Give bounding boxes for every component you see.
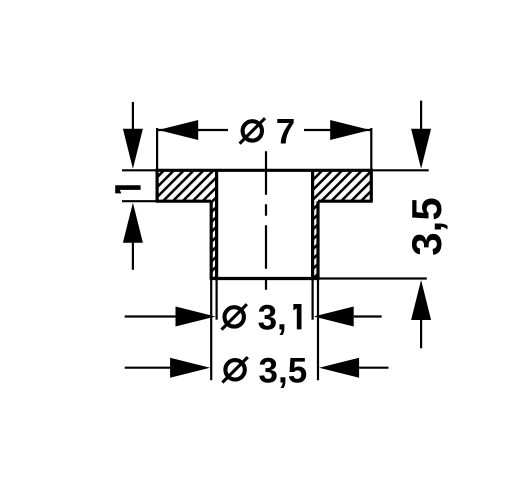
hatch right flange section bbox=[313, 170, 372, 278]
dimension line dia35 left bbox=[125, 367, 172, 369]
flange top outline bbox=[157, 170, 371, 201]
tube outer wall left bbox=[210, 201, 213, 278]
arrowhead dia31 right bbox=[314, 307, 354, 327]
dim 3,5 bottom arrowhead bbox=[411, 280, 431, 320]
dimension line dia7 left segment bbox=[157, 129, 228, 131]
dim 1 top arrowhead bbox=[123, 129, 143, 169]
dimension line dia31 right bbox=[354, 315, 382, 317]
extension line dia31 right inner bbox=[312, 279, 314, 320]
extension line dia31 left outer bbox=[210, 279, 212, 381]
hole wall right bbox=[311, 170, 314, 278]
dim 3,5 top arrowhead bbox=[411, 129, 431, 169]
arrowhead dia7 right bbox=[330, 120, 370, 140]
extension line tube bottom right bbox=[320, 277, 427, 279]
extension line dia31 right outer bbox=[317, 279, 319, 381]
label dia31 diameter symbol bbox=[225, 307, 244, 326]
svg-text:3,: 3, bbox=[258, 298, 287, 337]
tube outer wall right bbox=[316, 201, 319, 278]
extension line dia31 left inner bbox=[216, 279, 218, 320]
extension line flange bottom left bbox=[122, 200, 157, 202]
arrowhead dia35 left bbox=[170, 358, 210, 378]
dim 1 bottom arrowhead bbox=[123, 203, 143, 243]
svg-text:3,5: 3,5 bbox=[403, 197, 450, 255]
dim 1 top arrow tail bbox=[132, 102, 134, 129]
arrowhead dia7 left bbox=[158, 120, 198, 140]
centerline bbox=[265, 151, 267, 290]
flange bottom left outline bbox=[156, 200, 212, 203]
label dia35 diameter symbol bbox=[225, 360, 244, 379]
extension line dia7 left bbox=[156, 128, 158, 170]
extension line dia7 right bbox=[370, 128, 372, 170]
label dia7 diameter symbol bbox=[243, 121, 262, 140]
dim 3,5 top arrow tail bbox=[420, 101, 422, 129]
dimension line dia7 right segment bbox=[304, 129, 371, 131]
hole wall left bbox=[215, 170, 218, 278]
label dia31 value digit 1 bbox=[293, 304, 301, 329]
label 1 bbox=[115, 185, 140, 193]
extension line flange top left bbox=[122, 169, 157, 171]
extension line flange top right bbox=[371, 169, 428, 171]
dim 3,5 bottom arrow tail bbox=[420, 320, 422, 348]
dimension line dia31 left bbox=[125, 315, 177, 317]
hatch left flange section bbox=[157, 170, 217, 278]
arrowhead dia35 right bbox=[319, 358, 359, 378]
svg-text:7: 7 bbox=[276, 112, 295, 151]
dim 1 bottom arrow tail bbox=[132, 243, 134, 270]
svg-text:3,5: 3,5 bbox=[259, 351, 308, 390]
dimension line dia35 right bbox=[359, 367, 388, 369]
flange bottom right outline bbox=[318, 200, 373, 203]
arrowhead dia31 left bbox=[176, 307, 216, 327]
tube bottom outline bbox=[210, 277, 320, 280]
